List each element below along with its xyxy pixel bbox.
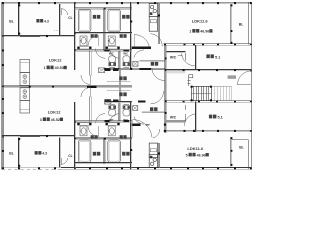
hall north wall gray band [166,70,185,74]
W/C east wall bottom-right [184,105,186,110]
label washroom 1 [91,34,94,38]
building entrance door arc [237,71,251,85]
sliding door thick segment [20,35,40,37]
WC room top-right walls [166,51,185,53]
washroom 3 counter bar [77,123,91,125]
wall posts bottom [18,167,20,169]
hall west wall [164,45,166,133]
kitchen counter bottom-left unit [20,100,30,113]
svg-text:WC: WC [109,52,115,56]
svg-text:WC: WC [123,52,129,56]
bathtub 1 [78,9,91,31]
WC north wall bottom [105,101,132,103]
wall posts left [2,35,4,37]
svg-text:40.53: 40.53 [55,66,64,70]
washroom 4 sink vanity [108,126,115,136]
balcony divider window bottom-left [18,137,20,167]
wall posts right [250,69,252,71]
balcony divider window bottom-right [230,137,232,167]
bathtub 4 [108,140,121,162]
kitchen side wall top-right [157,3,159,44]
label bathroom 3 [93,152,96,156]
label bathroom 4 [122,152,125,156]
center block west wall lower [73,102,75,170]
svg-text:CL: CL [68,154,72,158]
svg-text:5.1: 5.1 [218,116,223,120]
WC room bottom-right walls [166,120,185,122]
svg-text:LDK12: LDK12 [49,58,62,63]
bathroom divider wall [103,8,105,51]
label bedroom 4.3 top-left [36,19,39,23]
washroom 3 sink vanity [80,126,87,136]
label genkan right-top unit [151,62,154,66]
center block west wall upper [73,2,75,70]
genkan shoe cabinet left-top [98,68,104,73]
label genkan left-bottom unit [119,92,122,96]
genkan north black bar top-right [132,46,151,49]
label bedroom 5.1 bottom-right [209,115,212,119]
LDK door arc to corridor bottom-left [81,88,90,97]
outer wall left [1,2,3,169]
washroom 1 counter bar [77,47,91,49]
svg-text:46.52: 46.52 [51,118,60,122]
genkan step line bottom [107,89,131,91]
LDK door arc B top-right [150,34,162,46]
hallway/bedroom wall top-right [194,45,196,70]
bathroom north wall [74,7,131,9]
svg-text:W/C: W/C [170,116,177,120]
WC door arc 1 [96,49,106,59]
svg-text:5: 5 [186,153,188,157]
svg-text:4.3: 4.3 [42,152,47,156]
kitchen stove top-left unit [20,73,30,86]
washroom 3 door arc [88,126,99,137]
corridor wall top-left unit [89,50,91,75]
corridor wall bottom-left unit [89,96,91,121]
toilet 1 [109,56,116,63]
bathroom south wall [74,32,131,34]
WC south / genkan north wall [105,67,166,69]
svg-text:1: 1 [189,30,191,34]
svg-text:4.3: 4.3 [44,19,49,23]
washroom 4 counter bar [106,123,120,125]
W/C door leaf dash top-right [178,55,182,57]
storage box bottom [133,106,138,111]
label washroom 2 [120,34,123,38]
WC door arc bottom-right [184,114,195,126]
outer wall bottom left window part [2,166,61,168]
label washroom 3 [91,135,94,139]
bathtub 2 [108,9,121,31]
balcony outer rail bottom-right [247,140,249,170]
washroom 2 counter bar [106,47,120,49]
label bedroom 4.3 bottom-left [35,151,38,155]
unit entry door arc top-right [152,68,165,81]
genkan shoe cabinet left-bottom [105,100,111,105]
toilet 4 [123,109,130,116]
WC door arc 3 [96,114,106,124]
genkan south black bar bottom-right [131,123,140,126]
svg-text:CL: CL [68,16,72,20]
washroom north wall bottom [74,120,131,122]
LDK door arc A bottom-right [133,120,152,138]
bathroom south wall bottom [74,162,131,164]
bedroom south wall top-left [2,34,74,36]
svg-text:46.96: 46.96 [200,30,209,34]
svg-text:46.96: 46.96 [197,153,206,157]
kitchen stove bottom-left unit [20,88,30,101]
mid building wall [2,85,132,87]
WC stall divider [118,51,120,70]
washroom 4 door arc [134,116,144,124]
corridor south wall bottom-right / LDK north wall [164,129,252,131]
balcony divider window top-right [230,4,232,44]
label genkan left-top unit [119,76,122,80]
closet door arc bottom-left [61,158,67,164]
closet dashed front line [54,29,60,31]
genkan step line bottom-right [142,112,165,114]
label genkan right-bottom unit [150,107,153,111]
hall north wall [166,68,251,70]
balcony divider window top-left [18,4,20,35]
svg-text:LDK12: LDK12 [48,110,61,115]
balcony outer rail top-right [247,2,249,44]
washroom south wall [74,49,131,51]
outer wall top [2,1,252,3]
svg-text:WC: WC [109,118,115,122]
kitchen counter top-left unit [20,60,30,73]
svg-text:LDK11.6: LDK11.6 [192,18,209,23]
hall label [228,75,236,78]
genkan north wall black segments [105,68,111,70]
genkan west wall stub bottom [119,88,121,102]
bedroom north wall bottom-left [2,134,74,136]
hall south wall [166,100,251,102]
toilet 3 [109,109,116,116]
closet divider bottom-left [59,137,61,167]
outer wall bottom [61,166,252,168]
svg-text:BL: BL [9,151,14,155]
svg-text:1: 1 [44,66,46,70]
storage box top [133,61,138,66]
genkan west wall stub top [119,70,121,85]
WC stall divider bottom [118,103,120,122]
WC door arc 4 [110,114,120,124]
kitchen side wall bottom-right [157,143,159,167]
washroom 1 sink vanity [80,36,87,46]
washroom 2 door arc [134,50,144,58]
kitchen counter bottom-right unit [149,143,157,158]
stair direction arrow [188,75,190,86]
label washroom 4 [120,135,123,139]
washroom 1 door arc [88,36,99,47]
bathroom north wall bottom [74,137,131,139]
LDK south wall top-right [164,43,252,45]
kitchen stove bottom-right unit [149,154,157,167]
toilet 2 [123,56,130,63]
bathroom divider wall bottom [103,138,105,164]
bathtub 3 [78,140,91,162]
center block east wall lower [130,102,132,170]
hallway/bedroom wall bottom-right [194,102,196,132]
center block east wall [130,2,132,70]
sliding door thick segment bottom [20,135,40,137]
genkan step line top-right [140,59,165,61]
stair flight A [191,86,211,100]
genkan south wall black segments bottom [105,100,111,102]
svg-text:BL: BL [9,19,14,23]
outer wall right [250,2,252,169]
svg-text:W/C: W/C [170,55,177,59]
balcony top edge bottom-right [232,139,248,141]
svg-text:LDK11.6: LDK11.6 [187,146,204,151]
label bedroom 5.1 top-right [206,54,209,58]
LDK door arc to corridor top-left [81,75,90,84]
svg-text:BL: BL [239,23,244,27]
label bathroom 2 [122,15,125,19]
kitchen stove top-right unit [149,3,157,16]
stair flight B [213,86,215,100]
LDK door arc A top-right [134,35,149,47]
closet divider top-left [59,4,61,35]
washroom 2 sink vanity [108,36,115,46]
genkan step line top [107,80,131,82]
mid wall black segment [87,85,97,88]
label bathroom 1 [93,15,96,19]
wall posts top [18,2,20,4]
LDK door arc B bottom-right [153,129,160,138]
unit entry door arc bottom-right [151,91,164,104]
WC door arc top-right [182,53,195,65]
WC door arc 2 [110,49,120,59]
closet door arc top-left [61,9,67,15]
svg-text:5.1: 5.1 [215,55,220,59]
kitchen counter top-right unit [149,17,157,32]
svg-text:BL: BL [239,145,244,149]
svg-text:3: 3 [40,118,42,122]
